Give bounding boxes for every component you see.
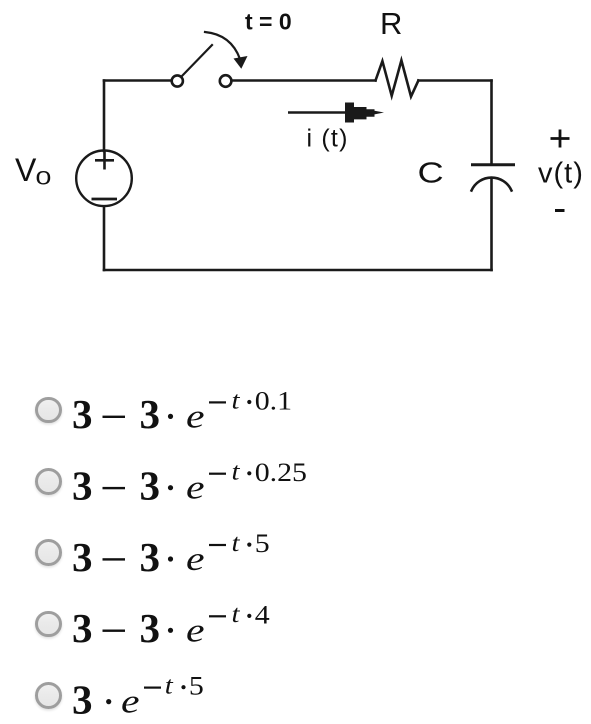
voltage source V0 circle — [76, 151, 132, 207]
capacitor C top plate — [473, 163, 514, 166]
svg-text:e: e — [121, 683, 140, 720]
svg-text:3: 3 — [140, 534, 161, 580]
wire: top-left horizontal from source top corner to switch left contact — [104, 79, 170, 82]
svg-text:t: t — [232, 386, 242, 414]
svg-text:3: 3 — [72, 534, 93, 580]
svg-text:3: 3 — [72, 676, 93, 722]
svg-text:t: t — [232, 600, 242, 628]
option 5 radio — [35, 682, 62, 709]
svg-text:3: 3 — [140, 391, 161, 437]
svg-text:4: 4 — [255, 601, 270, 630]
current arrowhead — [345, 103, 384, 123]
svg-text:5: 5 — [189, 672, 204, 701]
svg-text:e: e — [186, 612, 205, 649]
minus sign right of capacitor — [555, 209, 565, 212]
svg-text:t: t — [165, 671, 175, 699]
wire: bottom rail — [104, 269, 492, 272]
option 1 math: 3 - 3*e^(-t*0.1) — [72, 386, 292, 437]
wire: right vertical upper (to capacitor top plate) — [490, 81, 493, 164]
svg-text:3: 3 — [140, 463, 161, 509]
svg-text:3: 3 — [140, 605, 161, 651]
svg-text:5: 5 — [255, 530, 270, 559]
wire: left vertical lower (source bottom to bottom rail) — [103, 207, 106, 271]
switch blade — [182, 45, 213, 77]
plus sign right of capacitor — [551, 130, 570, 148]
option 3 math: 3 - 3*e^(-t*5) — [72, 529, 270, 580]
wire: left vertical upper (source to top-left corner) — [103, 81, 106, 152]
svg-text:3: 3 — [72, 605, 93, 651]
current arrow i(t) shaft — [288, 111, 352, 114]
minus sign inside source — [92, 198, 118, 201]
switch left contact — [172, 75, 183, 86]
circuit schematic: RC charging circuit — [0, 0, 591, 340]
label C — [418, 156, 444, 189]
switch closing arc — [205, 32, 240, 59]
switch arc arrowhead — [234, 56, 248, 69]
option 4 math: 3 - 3*e^(-t*4) — [72, 600, 270, 651]
option 2 math: 3 - 3*e^(-t*0.25) — [72, 457, 307, 508]
wire: top horizontal from switch right contact to resistor — [233, 79, 376, 82]
svg-text:e: e — [186, 398, 205, 435]
option 2 radio — [35, 468, 62, 495]
wire: resistor to top-right corner — [418, 79, 491, 82]
svg-text:3: 3 — [72, 463, 93, 509]
svg-text:3: 3 — [72, 391, 93, 437]
svg-text:0.1: 0.1 — [255, 387, 292, 416]
plus sign inside source — [95, 152, 114, 170]
option 1 radio — [35, 397, 62, 424]
svg-text:t: t — [232, 529, 242, 557]
capacitor C curved bottom plate — [472, 178, 512, 191]
svg-text:e: e — [186, 469, 205, 506]
resistor R zigzag — [376, 60, 419, 96]
svg-text:t: t — [232, 457, 242, 485]
wire: right vertical lower (capacitor to bottom rail) — [490, 179, 493, 271]
svg-text:e: e — [186, 541, 205, 578]
switch right contact — [220, 75, 232, 87]
option 3 radio — [35, 539, 62, 566]
option 5 math: 3*e^(-t*5) — [72, 671, 204, 722]
svg-text:0.25: 0.25 — [255, 459, 307, 488]
option 4 radio — [35, 611, 62, 638]
